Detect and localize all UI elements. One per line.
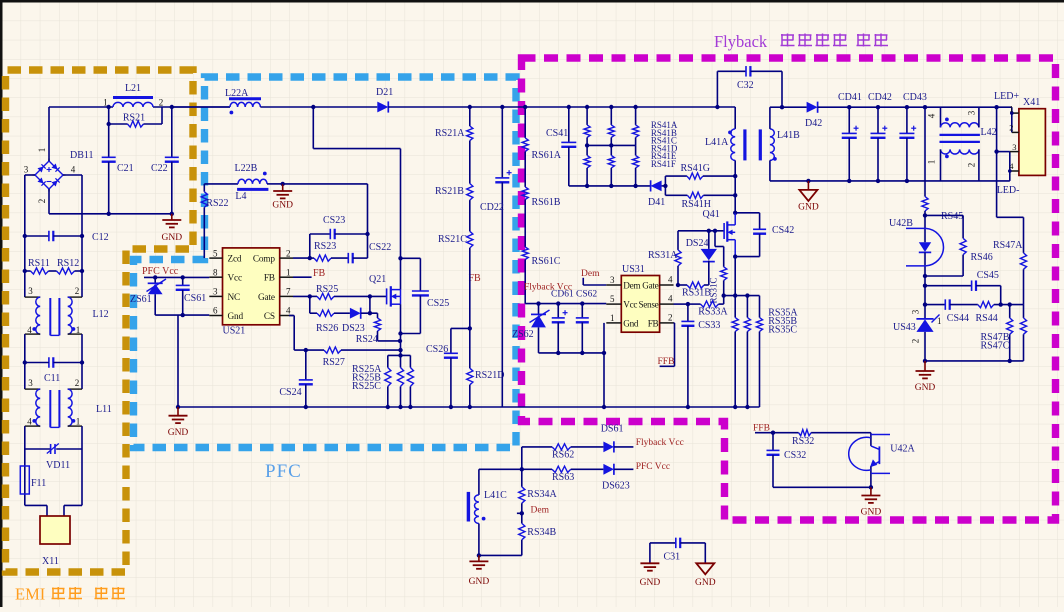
svg-text:GND: GND <box>168 428 189 438</box>
capacitor C31 <box>649 543 651 563</box>
diode D21 <box>377 102 388 113</box>
svg-text:GND: GND <box>695 578 716 588</box>
resistor RS41G <box>665 175 687 177</box>
svg-text:RS31B: RS31B <box>682 288 711 299</box>
svg-text:RS61B: RS61B <box>532 197 561 208</box>
capacitor CS42 <box>735 212 759 214</box>
PFC ground bus <box>178 406 760 408</box>
svg-text:GND: GND <box>640 578 661 588</box>
pin stubs US31 row <box>606 284 621 286</box>
diode DS61 <box>603 442 614 453</box>
resistor RS31C <box>714 231 716 247</box>
svg-text:GND: GND <box>915 383 936 393</box>
svg-text:RS25: RS25 <box>316 284 338 295</box>
svg-text:FFB: FFB <box>658 357 675 367</box>
wire: RS63 row <box>479 468 552 470</box>
output filter inductor L42 <box>940 107 942 127</box>
svg-text:RS33A: RS33A <box>698 307 728 318</box>
ground GND at C31 left <box>640 563 659 570</box>
varistor VD11 <box>24 426 26 449</box>
svg-text:US31: US31 <box>622 264 645 275</box>
svg-text:Zcd: Zcd <box>228 255 242 265</box>
sense resistor top bus <box>724 295 760 297</box>
svg-text:L21: L21 <box>125 83 141 94</box>
svg-text:CD41: CD41 <box>838 92 862 103</box>
svg-text:RS32: RS32 <box>792 436 814 447</box>
svg-text:RS61A: RS61A <box>532 150 562 161</box>
transformer primary L41A <box>734 107 736 129</box>
diode DS24 <box>708 231 710 249</box>
capacitor C12 <box>25 235 49 237</box>
svg-text:C31: C31 <box>664 552 681 563</box>
output rail <box>818 106 1012 108</box>
svg-text:RS21B: RS21B <box>435 186 464 197</box>
svg-text:1: 1 <box>937 316 942 326</box>
svg-text:GND: GND <box>469 577 490 587</box>
wire: gate row <box>676 283 680 287</box>
svg-text:CD43: CD43 <box>903 92 927 103</box>
svg-text:LED-: LED- <box>997 185 1020 196</box>
resistor network RS41A-RS41F <box>585 105 589 109</box>
svg-text:CS42: CS42 <box>772 225 794 236</box>
svg-text:CS32: CS32 <box>784 450 806 461</box>
svg-text:EMI: EMI <box>15 585 45 604</box>
svg-text:RS46: RS46 <box>971 252 993 263</box>
fuse F11 <box>24 449 26 505</box>
svg-text:FB: FB <box>264 274 275 284</box>
pin stubs US21 row <box>209 257 222 259</box>
svg-text:1: 1 <box>76 417 81 427</box>
svg-text:RS62: RS62 <box>552 450 574 461</box>
pin stubs US31 row <box>606 322 621 324</box>
capacitor CD43 <box>905 105 909 109</box>
svg-text:D41: D41 <box>648 197 665 208</box>
regulation gnd bus <box>925 360 1024 362</box>
svg-text:4: 4 <box>927 113 937 118</box>
svg-text:CS22: CS22 <box>369 242 391 253</box>
svg-text:RS24: RS24 <box>356 334 378 345</box>
svg-text:L42: L42 <box>981 127 997 138</box>
svg-text:Dem: Dem <box>581 269 600 279</box>
capacitor C32 <box>715 105 719 109</box>
svg-text:RS41G: RS41G <box>681 163 710 174</box>
svg-text:2: 2 <box>159 98 164 108</box>
svg-text:L22B: L22B <box>235 163 258 174</box>
resistor RS21 <box>108 107 110 124</box>
wire: LED+ sense drop <box>996 107 998 217</box>
capacitor CD61 <box>556 301 560 305</box>
capacitor CS24 <box>305 350 307 380</box>
inductor L21 <box>113 96 153 99</box>
svg-text:RS12: RS12 <box>57 258 79 269</box>
svg-text:8: 8 <box>213 267 218 277</box>
connector X41 <box>1019 109 1046 176</box>
svg-text:C11: C11 <box>44 373 60 384</box>
svg-text:RS47A: RS47A <box>993 240 1023 251</box>
resistor RS44 <box>978 302 994 308</box>
svg-text:CS44: CS44 <box>947 313 969 324</box>
PFC section dashed box <box>134 77 517 448</box>
IC US21 <box>223 248 280 325</box>
svg-text:Vcc: Vcc <box>228 274 242 284</box>
transformer secondary L41B <box>770 129 774 161</box>
svg-text:2: 2 <box>37 199 47 204</box>
resistor RS34B <box>521 513 523 523</box>
wire: main rail L21 to L22A to D21 <box>172 106 230 108</box>
svg-text:F11: F11 <box>31 478 46 489</box>
IC US31 <box>621 276 659 333</box>
X41 pins 3-4 wiring <box>1009 152 1011 181</box>
resistor RS45 <box>923 105 927 109</box>
svg-text:3: 3 <box>213 287 218 297</box>
transformer core bars <box>743 129 746 160</box>
svg-text:DS623: DS623 <box>602 481 630 492</box>
svg-text:CS24: CS24 <box>279 387 301 398</box>
capacitor CS23 <box>310 233 331 235</box>
wire: vcc parts gnd bus <box>539 352 605 354</box>
resistor chain RS61A <box>523 105 527 109</box>
ground GND at U42A <box>870 487 872 495</box>
capacitor CS45 <box>924 276 926 286</box>
capacitor CS26 <box>451 327 470 329</box>
wire: aux bottom <box>479 554 522 556</box>
svg-text:4: 4 <box>668 275 673 285</box>
resistor RS24 <box>377 313 379 318</box>
svg-text:2: 2 <box>967 163 977 168</box>
svg-text:2: 2 <box>75 286 80 296</box>
svg-text:GND: GND <box>272 201 293 211</box>
node: rail junctions at L21 <box>107 105 111 109</box>
resistor RS41H <box>665 194 687 196</box>
resistor RS21B <box>469 141 471 184</box>
wire: gnd drop <box>177 315 179 407</box>
resistor RS25 <box>293 295 310 297</box>
svg-text:U42A: U42A <box>890 444 915 455</box>
svg-text:L22A: L22A <box>225 88 249 99</box>
svg-text:Gnd: Gnd <box>623 318 639 328</box>
common-mode choke L11 <box>24 363 26 390</box>
svg-text:ZS62: ZS62 <box>512 329 534 340</box>
svg-text:DB11: DB11 <box>70 150 94 161</box>
wire: US21 gnd rail <box>155 314 209 316</box>
resistor chain RS21A <box>468 105 472 109</box>
svg-text:RS34A: RS34A <box>527 489 557 500</box>
svg-text:RS63: RS63 <box>552 472 574 483</box>
svg-text:L41A: L41A <box>705 137 729 148</box>
svg-text:CD22: CD22 <box>480 202 504 213</box>
capacitor CD22 <box>500 105 504 109</box>
pin stubs US31 row <box>606 303 621 305</box>
resistor RS32 <box>755 432 799 434</box>
resistor RS23 <box>310 257 314 259</box>
svg-text:D21: D21 <box>376 87 393 98</box>
capacitor C21 <box>108 124 110 157</box>
wire: L22B to comp network <box>283 183 368 185</box>
svg-text:PFC Vcc: PFC Vcc <box>636 462 670 472</box>
svg-text:PFC Vcc: PFC Vcc <box>142 266 179 277</box>
svg-text:Dem: Dem <box>531 506 550 516</box>
svg-text:4: 4 <box>286 306 291 316</box>
svg-text:FB: FB <box>313 268 326 279</box>
svg-text:CS45: CS45 <box>977 270 999 281</box>
net label Dem (US31) <box>583 284 606 286</box>
svg-text:RS22: RS22 <box>206 198 228 209</box>
aux winding L41C <box>478 469 480 495</box>
chassis ground at C31 right <box>696 563 714 574</box>
svg-text:US43: US43 <box>893 322 916 333</box>
resistor RS61B <box>524 152 526 187</box>
svg-text:RS27: RS27 <box>323 357 345 368</box>
wire: Vcc rail <box>144 276 209 278</box>
wire: boost drain feed <box>312 107 314 149</box>
svg-text:5: 5 <box>610 294 615 304</box>
resistor RS31B <box>678 284 687 286</box>
svg-text:4: 4 <box>668 294 673 304</box>
resistor RS46 <box>925 214 963 216</box>
net label FB (pin1) <box>293 276 312 278</box>
wire: US31 gnd drop <box>603 323 605 407</box>
svg-text:RS44: RS44 <box>976 313 998 324</box>
svg-text:RS41F: RS41F <box>651 159 676 169</box>
resistors RS25A RS25B RS25C <box>388 354 411 356</box>
chassis ground at output <box>806 179 810 183</box>
capacitor CS41 <box>567 105 571 109</box>
svg-text:4: 4 <box>27 325 32 335</box>
svg-text:VD11: VD11 <box>46 460 70 471</box>
capacitor CD41 <box>847 105 851 109</box>
svg-text:LED+: LED+ <box>994 91 1019 102</box>
wire: gate to mosfet <box>370 295 387 297</box>
resistor RS63 <box>552 466 571 472</box>
svg-text:RS21C: RS21C <box>438 234 467 245</box>
wire: X11 pin wires <box>25 504 47 506</box>
wire: Q41 gate row <box>678 230 724 232</box>
wire: bridge right pin rail <box>63 174 82 176</box>
svg-text:2: 2 <box>286 248 291 258</box>
ground GND at L22B <box>281 182 285 186</box>
svg-text:NC: NC <box>228 293 241 303</box>
capacitor CD42 <box>876 105 880 109</box>
capacitor CS22 <box>331 257 348 259</box>
svg-text:3: 3 <box>911 309 921 314</box>
svg-text:1: 1 <box>610 313 615 323</box>
ground GND at US43 <box>924 361 926 371</box>
resistor RS21C <box>469 200 471 231</box>
svg-text:2: 2 <box>911 339 921 344</box>
svg-text:Flyback Vcc: Flyback Vcc <box>636 438 684 448</box>
svg-text:GND: GND <box>162 233 183 243</box>
svg-text:CD61: CD61 <box>551 290 574 300</box>
Flyback section dashed box <box>522 58 1056 520</box>
svg-text:RS34B: RS34B <box>527 527 556 538</box>
svg-text:DS61: DS61 <box>601 424 624 435</box>
resistor RS34A <box>521 469 523 487</box>
svg-text:DS23: DS23 <box>342 323 365 334</box>
svg-text:1: 1 <box>927 160 937 165</box>
wire: Q41 source chain <box>734 257 736 296</box>
X41 pins 1-2 wiring <box>1011 107 1013 132</box>
svg-text:CS33: CS33 <box>698 320 720 331</box>
svg-text:GND: GND <box>861 508 882 518</box>
svg-text:2: 2 <box>75 378 80 388</box>
node: drain branch junction <box>311 105 315 109</box>
resistor RS21D <box>469 328 471 368</box>
resistor RS26 <box>309 296 311 313</box>
resistor RS33A <box>688 303 701 305</box>
capacitor CS32 <box>772 433 774 451</box>
svg-text:C22: C22 <box>151 163 168 174</box>
svg-text:7: 7 <box>286 287 291 297</box>
svg-text:CS23: CS23 <box>323 215 345 226</box>
ground GND PFC <box>177 407 179 416</box>
svg-text:5: 5 <box>213 248 218 258</box>
svg-text:C21: C21 <box>117 163 134 174</box>
svg-text:ZS61: ZS61 <box>130 294 152 305</box>
svg-text:RS41H: RS41H <box>682 199 711 210</box>
svg-text:4: 4 <box>27 417 32 427</box>
resistor RS47C <box>1023 305 1025 318</box>
diode DS23 <box>334 312 350 314</box>
svg-text:RS31C: RS31C <box>709 277 719 303</box>
svg-text:FB: FB <box>648 318 659 328</box>
resistor RS31A <box>677 231 679 250</box>
svg-text:RS11: RS11 <box>28 258 50 269</box>
connector X11 <box>40 516 70 544</box>
svg-text:Q21: Q21 <box>369 274 386 285</box>
svg-text:C32: C32 <box>737 80 754 91</box>
inductor L22A <box>229 97 261 100</box>
svg-text:6: 6 <box>213 306 218 316</box>
capacitor CS25 <box>401 257 421 259</box>
svg-text:DS24: DS24 <box>686 238 709 249</box>
bridge rectifier DB11 <box>35 161 63 189</box>
svg-text:RS25C: RS25C <box>352 381 381 392</box>
svg-text:RS47C: RS47C <box>981 341 1010 352</box>
wire: opto emitter bottom <box>773 486 871 488</box>
svg-text:RS21A: RS21A <box>435 128 465 139</box>
svg-text:L4: L4 <box>235 191 246 202</box>
capacitor CS61 <box>182 277 184 285</box>
svg-text:Gnd: Gnd <box>228 312 244 322</box>
svg-text:3: 3 <box>967 110 977 115</box>
svg-text:CS61: CS61 <box>184 293 206 304</box>
pin stubs US21 row <box>209 295 222 297</box>
ground GND at L41C <box>478 555 480 561</box>
svg-text:Gate: Gate <box>258 293 275 303</box>
svg-text:RS61C: RS61C <box>532 256 561 267</box>
svg-text:CS41: CS41 <box>546 128 568 139</box>
svg-text:2: 2 <box>668 312 673 322</box>
resistor RS47B <box>1009 305 1011 318</box>
svg-text:RS21: RS21 <box>123 113 145 124</box>
sheet border <box>0 0 1064 3</box>
svg-text:RS21D: RS21D <box>475 370 504 381</box>
capacitor C22 <box>171 107 173 157</box>
inductor L22B / L4 <box>204 183 238 185</box>
resistor RS27 <box>324 347 341 353</box>
svg-text:D42: D42 <box>805 118 822 129</box>
svg-text:L41C: L41C <box>484 490 507 501</box>
zener ZS62 <box>536 301 540 305</box>
wire: top rail bridge to L21 <box>49 106 113 108</box>
capacitor CS44 <box>924 286 926 305</box>
svg-text:U42B: U42B <box>889 218 913 229</box>
svg-text:RS45: RS45 <box>941 211 963 222</box>
svg-text:3: 3 <box>28 286 33 296</box>
pin stubs US21 row <box>209 315 222 317</box>
svg-text:RS31A: RS31A <box>648 250 678 261</box>
wire: Q21 source <box>400 304 402 355</box>
wire: bridge left pin rail <box>25 174 35 176</box>
svg-text:X11: X11 <box>42 556 59 567</box>
svg-text:RS23: RS23 <box>314 241 336 252</box>
optocoupler U42A (transistor side) <box>870 433 872 446</box>
resistor RS62 <box>552 444 571 450</box>
svg-text:GND: GND <box>798 203 819 213</box>
svg-text:3: 3 <box>24 165 29 175</box>
svg-text:1: 1 <box>76 325 81 335</box>
common-mode choke L12 <box>24 284 26 297</box>
svg-text:Flyback: Flyback <box>714 32 768 51</box>
wire: aux vcc rows <box>522 446 552 448</box>
svg-text:Dem: Dem <box>623 280 640 290</box>
secondary return bus <box>770 180 1010 182</box>
svg-text:CS25: CS25 <box>427 298 449 309</box>
wire: RS61 chain to Vcc row <box>524 260 526 304</box>
wire: bridge bottom to ground rail <box>48 189 50 214</box>
EMI filter section dashed box <box>6 70 194 572</box>
svg-text:4: 4 <box>71 165 76 175</box>
diode D41 <box>651 181 662 192</box>
svg-text:3: 3 <box>1012 142 1016 152</box>
capacitor CS33 <box>686 302 690 306</box>
zener ZS61 <box>154 277 156 283</box>
svg-text:Sense: Sense <box>638 300 658 310</box>
svg-text:CS26: CS26 <box>426 344 448 355</box>
wire: CS pin to RS27 row <box>289 315 294 317</box>
svg-text:CD42: CD42 <box>868 92 892 103</box>
svg-text:Q41: Q41 <box>703 209 720 220</box>
svg-text:3: 3 <box>610 275 615 285</box>
net label FFB (US31 FB pin) <box>674 322 675 324</box>
svg-text:1: 1 <box>37 148 47 153</box>
svg-text:CS: CS <box>264 312 275 322</box>
comp pin network wires <box>293 257 310 259</box>
svg-text:3: 3 <box>28 378 33 388</box>
svg-text:Comp: Comp <box>253 255 275 265</box>
pin stubs US21 row <box>209 276 222 278</box>
svg-text:Vcc: Vcc <box>623 300 637 310</box>
capacitor CS62 <box>580 301 584 305</box>
resistors RS35A RS35B RS35C <box>734 296 736 318</box>
svg-text:2: 2 <box>1009 123 1013 133</box>
wire: bridge top pin to rail <box>48 107 50 161</box>
svg-text:CS62: CS62 <box>576 290 597 300</box>
diode DS623 <box>603 464 614 475</box>
svg-text:RS26: RS26 <box>316 323 338 334</box>
capacitor C11 <box>48 357 50 368</box>
svg-text:Gate: Gate <box>642 280 658 290</box>
svg-text:1: 1 <box>1009 104 1013 114</box>
svg-text:L12: L12 <box>93 309 109 320</box>
net label Dem (divider) <box>520 511 524 515</box>
resistor RS61C <box>524 200 526 247</box>
resistor RS47A <box>997 216 1024 218</box>
diode D42 <box>782 106 807 108</box>
svg-text:X41: X41 <box>1023 97 1040 108</box>
svg-text:C12: C12 <box>92 232 109 243</box>
mosfet Q21 <box>386 288 388 304</box>
